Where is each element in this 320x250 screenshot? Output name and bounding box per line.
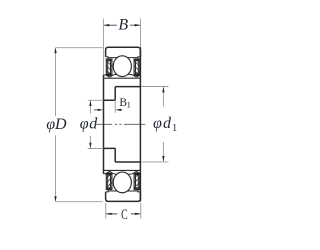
dimension C lines bbox=[106, 213, 140, 215]
dimension B arrows bbox=[104, 24, 141, 26]
dimension B extension lines bbox=[103, 19, 140, 75]
dimension B1 arrow right bbox=[120, 109, 123, 111]
bearing section bottom (mirror) bbox=[104, 170, 142, 201]
dimension phid1 line bbox=[162, 87, 164, 161]
svg-text:1: 1 bbox=[127, 100, 131, 110]
dimension C extension lines bbox=[106, 203, 141, 219]
outer ring outline bbox=[106, 47, 141, 57]
svg-text:C: C bbox=[121, 206, 128, 222]
right face bbox=[139, 47, 141, 201]
bore step faces bbox=[114, 87, 116, 162]
bore surface lines bbox=[104, 100, 116, 148]
dimension phid1 extension lines bbox=[142, 87, 169, 162]
inner ring land line bbox=[104, 77, 141, 79]
dimension B1 arrow left bbox=[94, 109, 100, 111]
outer raceway shoulder line bbox=[108, 57, 138, 59]
dimension phiD arrows bbox=[54, 48, 56, 202]
dimension phiD line bbox=[55, 48, 57, 201]
dimension B lines bbox=[104, 24, 140, 26]
dimension phid extension lines bbox=[88, 100, 104, 148]
dimension C arrows bbox=[106, 213, 141, 215]
dimension B1 extension line bbox=[114, 101, 116, 113]
seal right bbox=[133, 59, 141, 77]
inner ring left face bbox=[103, 75, 105, 174]
outer ring seal groove notch right bbox=[138, 57, 141, 60]
dimension phid line bbox=[89, 101, 91, 148]
sleeve d1 surface bbox=[115, 87, 140, 162]
svg-text:φd: φd bbox=[80, 116, 98, 133]
svg-text:φD: φD bbox=[46, 116, 67, 133]
dimension phiD extension lines bbox=[56, 48, 103, 202]
dimension phid arrows bbox=[89, 100, 91, 148]
svg-text:B: B bbox=[118, 17, 128, 34]
inner raceway shoulder wavy line bbox=[104, 74, 141, 77]
ball bbox=[113, 56, 131, 77]
center axis line bbox=[96, 123, 145, 125]
dimension phid1 arrows bbox=[162, 87, 164, 162]
bearing section top (mirrored below) bbox=[104, 47, 142, 78]
outer ring seal groove notch left bbox=[106, 57, 109, 60]
seal left bbox=[105, 59, 113, 77]
